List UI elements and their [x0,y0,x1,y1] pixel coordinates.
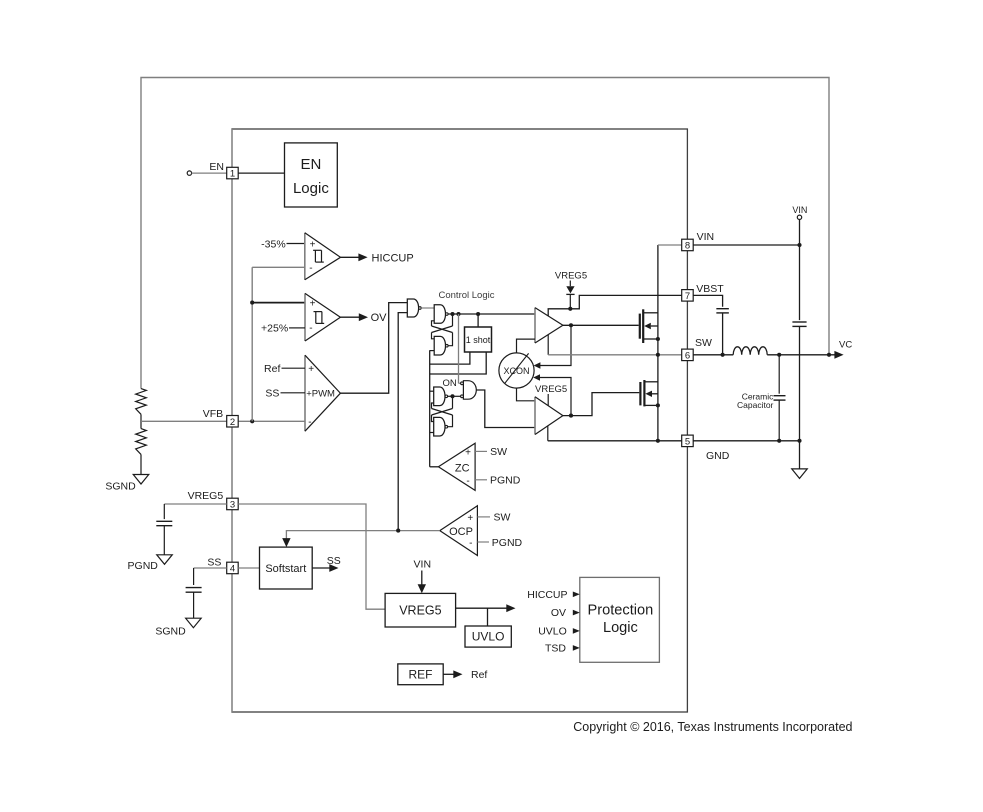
wire SS cap to SGND [193,592,195,618]
svg-text:Control Logic: Control Logic [439,290,495,301]
wire feedback to OV plus [252,302,305,304]
wire AND output to low driver [476,390,535,428]
label EN [209,161,224,173]
svg-text:+25%: +25% [261,323,288,335]
wire ZC output to bus [430,466,439,468]
comparator PWM [305,355,340,431]
wire PWM output to gate A1 [340,303,407,394]
pin 8 [682,239,694,251]
wire gate A1 to A2 [421,307,434,309]
node OCP reset junction [396,529,400,533]
wire ZC PGND input [475,479,487,481]
nand gate B2 (latch2 bottom) [434,417,448,436]
wire OCP output [282,531,440,548]
svg-text:Ref: Ref [264,363,280,375]
svg-text:4: 4 [230,564,235,575]
wire inductor to VC [767,354,836,356]
wire 1shot out right [430,352,487,374]
svg-text:7: 7 [685,291,690,302]
svg-text:VREG5: VREG5 [535,384,567,395]
wire SS cap branch [193,568,195,585]
wire VREG5 cap branch [163,504,165,519]
wire VC feedback loop (VC node up, across top, down to divider) [141,78,829,389]
svg-text:SGND: SGND [105,480,136,492]
label SS (softstart out) [327,555,341,567]
svg-text:1 shot: 1 shot [466,335,491,345]
arrow VIN into VREG5 [418,571,426,594]
svg-text:SS: SS [207,556,221,568]
svg-text:3: 3 [230,500,235,511]
svg-text:1: 1 [230,169,235,180]
nand gate B1 (latch2 top) [434,387,448,406]
block 1 shot [465,327,492,352]
wire pin5 external [693,440,799,442]
label Control Logic [439,290,495,301]
transistor high-side FET [640,309,658,343]
pin 5 [682,435,694,447]
wire cap to PGND [163,526,165,555]
comparator HICCUP [305,233,341,280]
ground SGND (SS) [186,618,202,628]
svg-text:EN: EN [300,156,321,173]
wire gate B2 lower hook [430,432,434,434]
wire VBST rail [548,295,682,316]
svg-text:2: 2 [230,417,235,428]
wire latch2 cross coupling [432,396,453,426]
label GND (pin5) [706,450,730,462]
svg-text:HICCUP: HICCUP [372,252,414,264]
arrow VC output [834,351,843,359]
wire SS input [281,392,306,394]
wire OCP PGND input [477,541,489,543]
svg-text:VBST: VBST [696,283,724,295]
wire ZC SW input [475,450,487,452]
svg-text:-: - [469,538,472,549]
wire pin3 to VREG5 block [238,504,385,609]
pin 4 [227,562,239,574]
svg-text:SS: SS [265,388,279,400]
nand gate A2 (latch1 top) [434,305,448,324]
buffer low-side driver [535,397,563,435]
wire low gate [563,393,639,416]
svg-text:SW: SW [695,337,712,349]
wire VFB row [141,420,305,422]
label PGND (ZC) [490,475,521,487]
capacitor VIN input [792,245,806,441]
label SGND (SS) [155,626,186,638]
svg-text:-: - [309,263,312,274]
label Ceramic Capacitor [737,392,774,410]
wire pin8 internal [658,244,682,246]
wire REF output [443,670,462,678]
node GND FET junction [656,439,660,443]
label VREG5 (low driver) [535,384,567,406]
ground PGND [157,555,173,565]
node ceramic to GND rail [777,439,781,443]
wire Softstart output [312,564,338,572]
svg-text:PGND: PGND [490,475,521,487]
wire high gate to XCON [534,325,571,368]
EN input terminal [187,171,227,175]
wire gate A3 lower hook [430,350,435,352]
label VIN (VREG5 in) [414,559,432,571]
label SS (PWM) [265,388,279,400]
label HICCUP (protection in) [527,589,580,601]
wire feedback to HICCUP minus [252,266,305,268]
wire 1shot out left [430,352,470,364]
ground SGND (divider) [133,475,149,485]
svg-text:OV: OV [551,607,566,619]
IC boundary box [232,129,687,712]
wire pin8 external [693,244,799,246]
wire 1shot input [477,314,479,327]
diode VREG5 to VBST [555,270,587,308]
wire SW rail internal [548,354,682,356]
label VC [839,339,852,350]
svg-text:ZC: ZC [455,462,470,474]
capacitor VBST bootstrap [693,295,729,354]
wire -35% input [287,243,305,245]
ground GND (external) [792,441,808,479]
svg-text:+: + [308,364,314,375]
label OV [371,312,388,324]
pin 7 [682,290,694,302]
label PGND [128,560,159,572]
svg-text:TSD: TSD [545,643,566,655]
svg-text:Softstart: Softstart [265,563,306,575]
wire high driver to SW stub [547,335,549,355]
svg-text:+: + [467,513,473,524]
svg-text:-: - [308,417,311,428]
resistor R2 [136,429,147,455]
pin 1 [227,167,239,179]
node VIN cap to GND rail [797,439,801,443]
label UVLO (protection in) [538,626,580,638]
svg-text:8: 8 [685,241,690,252]
svg-text:EN: EN [209,161,224,173]
label -35% [261,238,286,250]
svg-text:VREG5: VREG5 [555,270,587,281]
wire divider middle [140,414,142,428]
label VIN (pin8) [697,231,715,243]
svg-text:+PWM: +PWM [306,389,335,400]
label VBST [696,283,724,295]
svg-text:UVLO: UVLO [538,626,567,638]
svg-text:OCP: OCP [449,526,473,538]
wire gate B1 to AND [448,395,461,397]
wire FET chain vertical [657,245,659,441]
wire latch1 output line [448,313,535,315]
label SGND (divider) [105,480,136,492]
svg-text:OV: OV [371,312,388,324]
svg-text:5: 5 [685,436,690,447]
svg-text:+: + [310,299,316,310]
svg-text:SW: SW [494,512,511,524]
svg-text:VIN: VIN [414,559,432,571]
svg-text:XCON: XCON [503,366,529,376]
terminal VIN [792,205,807,245]
node latch1 out dot b [456,312,460,316]
label SW (OCP) [494,512,511,524]
capacitor VREG5 bypass [156,521,172,525]
node latch1 out dot c [476,312,480,316]
wire VREG5 output [456,604,516,612]
wire low gate to XCON [533,374,571,415]
capacitor SS [186,588,202,593]
wire GND rail internal [548,440,682,442]
node gate B1 out dot [450,394,454,398]
comparator OCP [440,506,478,556]
svg-text:SW: SW [490,446,507,458]
node VFB junction [250,419,254,423]
wire gate A1 reset input [398,313,407,531]
wire left bus [429,350,431,467]
copyright notice [573,720,852,734]
block REF [398,664,443,685]
svg-text:-35%: -35% [261,238,286,250]
svg-text:PGND: PGND [492,537,523,549]
EN Logic block [285,143,338,207]
and gate ON (inverted inputs) [461,381,477,400]
wire OV output [340,313,368,321]
inductor L1 [733,347,767,355]
wire gate B1 upper hook [430,390,434,392]
label VREG5 (pin 3) [188,490,224,502]
svg-text:REF: REF [409,668,433,682]
svg-text:Protection: Protection [588,603,654,619]
node feedback OV junction [250,301,254,305]
wire OCP SW input [477,516,490,518]
wire +25% input [289,327,305,329]
comparator ZC [438,443,475,490]
wire divider bottom [140,454,142,474]
svg-text:6: 6 [685,350,690,361]
label OV (protection in) [551,607,580,619]
pin 6 [682,349,694,361]
wire pin1 to EN Logic [238,172,284,174]
wire high gate [563,324,639,326]
wire XCON to high driver [517,339,536,353]
svg-text:-: - [309,323,312,334]
label SS (pin 4) [207,556,221,568]
wire Ref input [282,367,306,369]
svg-text:UVLO: UVLO [472,630,505,644]
node low gate dot [569,414,573,418]
svg-text:PGND: PGND [128,560,159,572]
label Ref (REF out) [471,669,487,681]
node SW FET junction [656,353,660,357]
svg-text:VIN: VIN [792,205,807,215]
block UVLO [465,626,511,647]
svg-text:Capacitor: Capacitor [737,400,774,410]
node high gate dot [569,323,573,327]
wire feedback vertical [251,267,253,421]
node high FET source dot [656,337,660,341]
svg-text:+: + [310,239,316,250]
wire low driver to GND stub [547,426,549,441]
label HICCUP [372,252,414,264]
node low FET source dot [656,403,660,407]
svg-text:VREG5: VREG5 [188,490,224,502]
node SW VBST junction [721,353,725,357]
capacitor ceramic output [774,355,786,441]
svg-text:Copyright © 2016, Texas Instru: Copyright © 2016, Texas Instruments Inco… [573,720,852,734]
pin 3 [227,498,239,510]
svg-text:SS: SS [327,555,341,567]
svg-text:-: - [466,476,469,487]
wire pin4 to Softstart [238,567,259,569]
svg-text:+: + [465,447,471,458]
svg-text:ON: ON [442,378,456,389]
wire SS row [194,567,227,569]
resistor R1 [136,389,147,415]
node VC ceramic junction [777,353,781,357]
wire VREG5 row to cap [164,503,226,505]
nand gate A1 [407,299,421,317]
svg-text:SGND: SGND [155,626,186,638]
wire HICCUP output [341,253,368,261]
svg-text:VIN: VIN [697,231,715,243]
block XCON [499,353,534,388]
label TSD (protection in) [545,643,580,655]
node latch1 out dot a [450,312,454,316]
wire XCON to low driver [517,388,536,401]
svg-text:Ref: Ref [471,669,487,681]
wire latch1 cross coupling [432,314,453,346]
nand gate A3 (latch1 bottom) [434,336,448,355]
comparator OV [305,293,340,341]
pin 2 [227,416,239,428]
svg-text:Logic: Logic [293,180,329,197]
buffer high-side driver [535,308,563,343]
block VREG5 [385,593,456,627]
label SW (ZC) [490,446,507,458]
label VFB [203,408,223,420]
svg-text:GND: GND [706,450,730,462]
wire pin6 external [693,354,733,356]
label Ref (PWM) [264,363,280,375]
svg-text:Logic: Logic [603,620,638,636]
svg-text:VFB: VFB [203,408,223,420]
transistor low-side FET [640,380,658,406]
label SW (pin6) [695,337,712,349]
svg-text:VREG5: VREG5 [399,603,441,617]
label +25% [261,323,288,335]
svg-text:VC: VC [839,339,852,350]
label ON [442,378,456,389]
block Protection Logic [580,577,660,662]
label PGND (OCP) [492,537,523,549]
svg-text:HICCUP: HICCUP [527,589,567,601]
wire ON line [459,314,461,383]
node VIN junction [797,243,801,247]
node VC feedback junction [827,353,831,357]
node diode junction [568,307,572,311]
block Softstart [260,547,313,589]
wire VREG5 to UVLO [487,608,489,626]
